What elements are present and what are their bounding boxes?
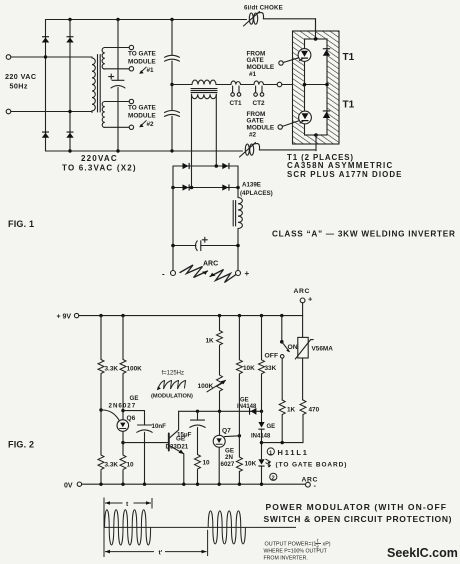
terminal gate module 2 top [129, 99, 133, 103]
svg-text:D33D21: D33D21 [166, 444, 189, 451]
wire into module box [282, 84, 305, 86]
diode D3 [183, 163, 190, 169]
rail varistor x303 [302, 316, 304, 443]
resistor R8 10K [236, 360, 242, 374]
diode bridge upper-left [42, 36, 49, 42]
svg-text:xP): xP) [323, 542, 331, 548]
svg-text:T1: T1 [343, 100, 355, 111]
rail switch x281.8 [281, 316, 283, 443]
svg-text:(TO GATE BOARD): (TO GATE BOARD) [276, 461, 348, 468]
svg-text:GE: GE [130, 395, 139, 402]
dimension t [104, 498, 152, 558]
node [314, 37, 318, 41]
svg-text:Q7: Q7 [222, 427, 231, 434]
annotation circled 1 [267, 448, 274, 455]
resistor R12 470 [300, 400, 306, 415]
wire box bottom feed [315, 135, 317, 151]
resistor R3 100K [120, 360, 126, 374]
diode D6 [222, 184, 229, 190]
capacitor C5 10nF [138, 424, 152, 426]
transformer T core [98, 55, 101, 113]
svg-text:+: + [308, 295, 313, 304]
svg-text:3.3K: 3.3K [105, 462, 119, 469]
diode D4 [222, 163, 229, 169]
node top rail junction [68, 18, 71, 21]
svg-text:ARC: ARC [203, 261, 218, 268]
capacitor C1 polarized [112, 79, 124, 81]
svg-text:2N: 2N [225, 454, 233, 461]
wire arc stem [302, 303, 304, 316]
diode D1 [323, 48, 330, 56]
dimension t prime [207, 530, 209, 556]
svg-text:0V: 0V [64, 482, 73, 489]
diode bridge lower-left [42, 132, 49, 138]
SCR Q2 [299, 111, 312, 124]
node [170, 83, 173, 86]
potentiometer R7 100K [217, 375, 223, 391]
svg-text:15μF: 15μF [177, 431, 192, 438]
transformer T secondary winding 2 [102, 102, 105, 128]
svg-text:IN4148: IN4148 [251, 434, 271, 440]
svg-text:-: - [162, 270, 165, 279]
current transformer CT2 [254, 81, 264, 85]
terminal 220VAC top [6, 55, 11, 60]
diode D5 [183, 184, 190, 190]
wire gate1 [283, 58, 298, 63]
svg-text:2: 2 [272, 476, 275, 482]
svg-text:CLASS “A” — 3KW WELDING INVERT: CLASS “A” — 3KW WELDING INVERTER [272, 230, 456, 239]
wire bridge right rail [237, 166, 239, 271]
svg-text:10K: 10K [245, 461, 257, 468]
svg-text:1K: 1K [206, 338, 215, 345]
resistor R5 10 [195, 455, 201, 470]
terminal gate module 2 bottom [129, 125, 133, 129]
wire Q6 gate [101, 410, 121, 423]
svg-text:t': t' [159, 550, 163, 557]
svg-text:OUTPUT POWER=(1-: OUTPUT POWER=(1- [265, 542, 319, 548]
wire mid to transformer T2 [172, 84, 192, 86]
transformer T2 core [191, 89, 217, 93]
C1 plus sign [109, 74, 114, 79]
node gate tap [99, 408, 102, 411]
node [260, 441, 263, 444]
capacitor C6 15uF [197, 411, 199, 419]
svg-text:V56MA: V56MA [312, 345, 334, 352]
terminal ARC minus [306, 482, 311, 487]
svg-text:TO GATE: TO GATE [128, 51, 157, 58]
svg-text:SeekIC.com: SeekIC.com [387, 546, 458, 560]
node bottom rail [68, 149, 71, 152]
svg-text:10: 10 [127, 462, 135, 469]
wire cap row [173, 245, 238, 247]
rectifier bridge row1 wire [173, 165, 238, 167]
node top rail [99, 314, 102, 317]
node [215, 164, 219, 168]
diode D7 IN4148 [249, 408, 256, 415]
transformer T primary winding [92, 57, 95, 112]
wire box mid [305, 84, 328, 86]
svg-text:GATE: GATE [247, 57, 265, 64]
svg-text:MODULE: MODULE [247, 125, 275, 132]
svg-text:+: + [245, 269, 250, 278]
svg-text:GATE: GATE [247, 117, 265, 124]
svg-text:470: 470 [309, 407, 320, 414]
resistor R6 1K [217, 331, 223, 346]
transformer T2 primary winding [192, 80, 216, 84]
wave centerline [104, 526, 296, 528]
diode bridge lower-right [66, 132, 73, 138]
svg-text:220VAC: 220VAC [81, 154, 118, 163]
wire 220VAC bottom [11, 111, 92, 113]
node [121, 409, 124, 412]
node [196, 410, 199, 413]
rail B x123 [122, 316, 124, 485]
svg-text:T1: T1 [343, 52, 355, 63]
resistor R2 3.3K lower [98, 455, 104, 470]
wire rail x118 [117, 20, 119, 152]
wire secondary2 leads [105, 102, 129, 128]
wire bottom rail fig2 [82, 483, 306, 485]
node [68, 110, 71, 113]
capacitor C4 [195, 241, 197, 251]
resistor R11 1K [279, 400, 285, 415]
rectifier bridge row2 wire [173, 187, 238, 189]
svg-text:100K: 100K [127, 366, 143, 373]
resistor R10 33K [259, 360, 265, 374]
wire box top feed [315, 19, 317, 39]
wire rail x172 [171, 20, 173, 152]
svg-text:ON: ON [288, 344, 298, 351]
wire Q7 gate [225, 435, 240, 438]
terminal +9V [74, 313, 78, 317]
svg-text:(MODULATION): (MODULATION) [151, 394, 193, 400]
terminal 220VAC bottom [6, 109, 11, 114]
svg-text:6027: 6027 [221, 461, 235, 468]
terminal arc minus [171, 271, 176, 276]
choke L2 symbol [245, 144, 249, 155]
svg-text:FROM INVERTER.: FROM INVERTER. [264, 556, 308, 562]
svg-text:MODULE: MODULE [128, 59, 156, 66]
svg-text:10nF: 10nF [152, 423, 167, 430]
terminal arc plus [236, 271, 241, 276]
varistor V56MA [298, 337, 308, 358]
svg-text:10: 10 [203, 460, 211, 467]
transformer T2 secondary winding [192, 94, 217, 98]
svg-text:POWER MODULATOR (WITH ON-OFF: POWER MODULATOR (WITH ON-OFF [266, 502, 448, 512]
node [44, 55, 47, 58]
terminal 0V [77, 482, 81, 486]
inductor L3 core [233, 201, 235, 227]
node [281, 441, 284, 444]
diode bridge upper-right [66, 36, 73, 42]
module T1 inner box [305, 39, 328, 135]
wire top rail fig2 [79, 315, 303, 317]
rail pot x219.5 [218, 316, 220, 485]
svg-text:#2: #2 [249, 132, 257, 139]
node [303, 83, 307, 87]
svg-text:A139E: A139E [242, 182, 261, 189]
transformer T secondary winding 1 [102, 48, 105, 70]
svg-text:TO 6.3VAC (X2): TO 6.3VAC (X2) [62, 164, 137, 173]
terminal from gate module2 [278, 125, 282, 129]
svg-text:FIG. 2: FIG. 2 [8, 440, 34, 450]
wire gate2 [282, 121, 299, 127]
choke L1 (6i/dt choke) symbol [249, 13, 253, 24]
svg-text:2N6027: 2N6027 [109, 403, 137, 410]
sawtooth modulation icon [158, 381, 186, 390]
terminal gate module 1 bottom [129, 67, 133, 71]
node [171, 244, 175, 248]
wire 220VAC top [11, 56, 92, 58]
svg-text:(4PLACES): (4PLACES) [240, 190, 273, 197]
svg-text:TO GATE: TO GATE [128, 105, 157, 112]
wire T2 secondary right lead [215, 94, 217, 166]
svg-text:CT1: CT1 [230, 100, 243, 107]
rail A x101 [100, 316, 102, 485]
terminal mid [277, 82, 282, 87]
wire top rail [46, 19, 316, 39]
wire 10nF branch [123, 411, 145, 485]
wire bottom link row [262, 442, 304, 444]
C4 plus [202, 237, 207, 242]
wire to CTs [216, 84, 277, 86]
rail x261.5 [261, 316, 263, 485]
resistor R9 10K lower [236, 457, 242, 472]
wire bridge vertical left [45, 20, 47, 152]
svg-text:OFF: OFF [265, 352, 279, 359]
svg-text:Q6: Q6 [127, 415, 136, 422]
svg-text:H11L1: H11L1 [278, 448, 309, 457]
wire bottom rail fig1 [46, 150, 317, 151]
wire bridge vertical right [69, 20, 71, 152]
opto LED H11L1 [258, 459, 264, 466]
svg-text:220 VAC: 220 VAC [5, 72, 36, 81]
terminal gate module 1 top [129, 45, 133, 49]
diode D8 IN4148 vertical [258, 422, 264, 430]
svg-text:+ 9V: + 9V [57, 313, 72, 320]
wire Q6 base row [123, 442, 169, 444]
svg-text:WHERE P=100% OUTPUT: WHERE P=100% OUTPUT [264, 549, 328, 555]
switch S1 [280, 340, 284, 344]
svg-text:CT2: CT2 [253, 100, 266, 107]
svg-text:FIG. 1: FIG. 1 [8, 219, 34, 229]
terminal ARC plus fig2 [300, 298, 305, 303]
svg-text:SWITCH & OPEN CIRCUIT PROTECTI: SWITCH & OPEN CIRCUIT PROTECTION) [264, 514, 453, 524]
arc lightning symbol [180, 265, 208, 278]
svg-text:10K: 10K [243, 365, 255, 372]
wire secondary1 leads [105, 48, 129, 69]
resistor R1 3.3K [98, 360, 104, 374]
svg-text:33K: 33K [265, 365, 277, 372]
svg-text:#1: #1 [249, 71, 257, 78]
node bottom feed [314, 133, 318, 137]
svg-text:3.3K: 3.3K [105, 366, 119, 373]
terminal from gate module1 [279, 61, 283, 65]
diode D2 [323, 110, 330, 118]
svg-text:GE: GE [267, 424, 276, 430]
wire bridge left rail [172, 166, 174, 271]
svg-text:f=125Hz: f=125Hz [162, 371, 185, 377]
capacitor C3 [165, 111, 180, 117]
svg-text:50Hz: 50Hz [10, 82, 28, 91]
svg-text:6i/dt CHOKE: 6i/dt CHOKE [244, 5, 283, 12]
svg-text:MODULE: MODULE [128, 113, 156, 120]
module T1 hatched box [293, 31, 340, 144]
transistor Q6 PUT [117, 420, 129, 432]
capacitor C2 [165, 55, 180, 61]
wave burst2 [208, 511, 245, 544]
transistor Q2 D33D21 [168, 434, 170, 451]
SCR Q1 [298, 49, 311, 62]
inductor L3 [238, 198, 242, 229]
transistor Q7 PUT [213, 435, 225, 447]
svg-text:#1: #1 [147, 67, 155, 74]
wire T2 secondary left lead [191, 94, 193, 187]
node [238, 434, 241, 437]
node bottom rail [99, 483, 102, 486]
svg-text:1K: 1K [287, 407, 296, 414]
svg-text:100K: 100K [198, 383, 214, 390]
wave burst1 [105, 510, 151, 545]
annotation circled 2 [270, 473, 277, 480]
svg-text:#2: #2 [147, 121, 155, 128]
resistor R4 10 [120, 455, 126, 470]
svg-text:SCR PLUS A177N DIODE: SCR PLUS A177N DIODE [287, 170, 403, 179]
wire collector row [179, 410, 262, 412]
current transformer CT1 [231, 81, 241, 85]
svg-text:GE: GE [240, 398, 249, 404]
rail x239.4 [238, 316, 240, 485]
svg-text:IN4148: IN4148 [237, 404, 257, 410]
